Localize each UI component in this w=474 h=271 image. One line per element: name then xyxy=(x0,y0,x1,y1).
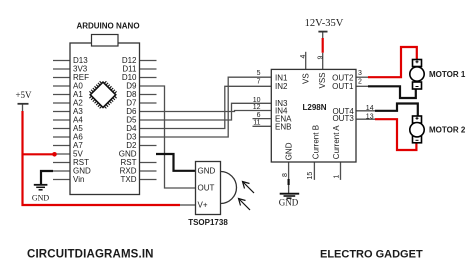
svg-text:OUT3: OUT3 xyxy=(332,114,354,123)
svg-text:14: 14 xyxy=(366,105,374,112)
svg-text:IN2: IN2 xyxy=(275,82,288,91)
svg-text:ENB: ENB xyxy=(275,123,291,132)
svg-text:12V-35V: 12V-35V xyxy=(305,18,344,29)
svg-text:OUT1: OUT1 xyxy=(332,82,354,91)
svg-text:GND: GND xyxy=(279,198,299,208)
svg-text:11: 11 xyxy=(253,120,260,127)
svg-text:12: 12 xyxy=(253,104,261,111)
svg-text:13: 13 xyxy=(366,114,374,121)
svg-text:TXD: TXD xyxy=(121,175,137,184)
svg-text:TSOP1738: TSOP1738 xyxy=(188,218,228,227)
svg-text:8: 8 xyxy=(282,173,289,177)
svg-text:L298N: L298N xyxy=(302,103,326,112)
svg-text:+5V: +5V xyxy=(15,90,32,100)
svg-text:VSS: VSS xyxy=(318,72,327,88)
svg-text:GND: GND xyxy=(198,166,216,175)
svg-text:MOTOR 1: MOTOR 1 xyxy=(429,70,466,79)
svg-text:Current B: Current B xyxy=(312,125,321,159)
svg-text:1: 1 xyxy=(334,175,341,179)
svg-text:ARDUINO NANO: ARDUINO NANO xyxy=(76,22,139,31)
svg-text:4: 4 xyxy=(300,55,307,59)
svg-text:5: 5 xyxy=(257,70,261,77)
svg-text:3: 3 xyxy=(358,70,362,77)
svg-text:15: 15 xyxy=(307,172,314,180)
svg-text:V+: V+ xyxy=(198,201,208,210)
svg-text:7: 7 xyxy=(257,79,261,86)
svg-text:Current A: Current A xyxy=(332,125,341,159)
svg-text:CIRCUITDIAGRAMS.IN: CIRCUITDIAGRAMS.IN xyxy=(27,249,154,261)
svg-text:Vin: Vin xyxy=(73,175,84,184)
svg-text:GND: GND xyxy=(32,194,50,203)
svg-text:9: 9 xyxy=(318,56,325,60)
svg-text:MOTOR 2: MOTOR 2 xyxy=(429,126,466,135)
svg-text:2: 2 xyxy=(358,79,362,86)
svg-text:6: 6 xyxy=(257,112,261,119)
svg-text:VS: VS xyxy=(301,73,310,84)
svg-text:ELECTRO GADGET: ELECTRO GADGET xyxy=(320,249,423,261)
svg-text:GND: GND xyxy=(284,142,293,160)
svg-text:OUT: OUT xyxy=(198,184,215,193)
